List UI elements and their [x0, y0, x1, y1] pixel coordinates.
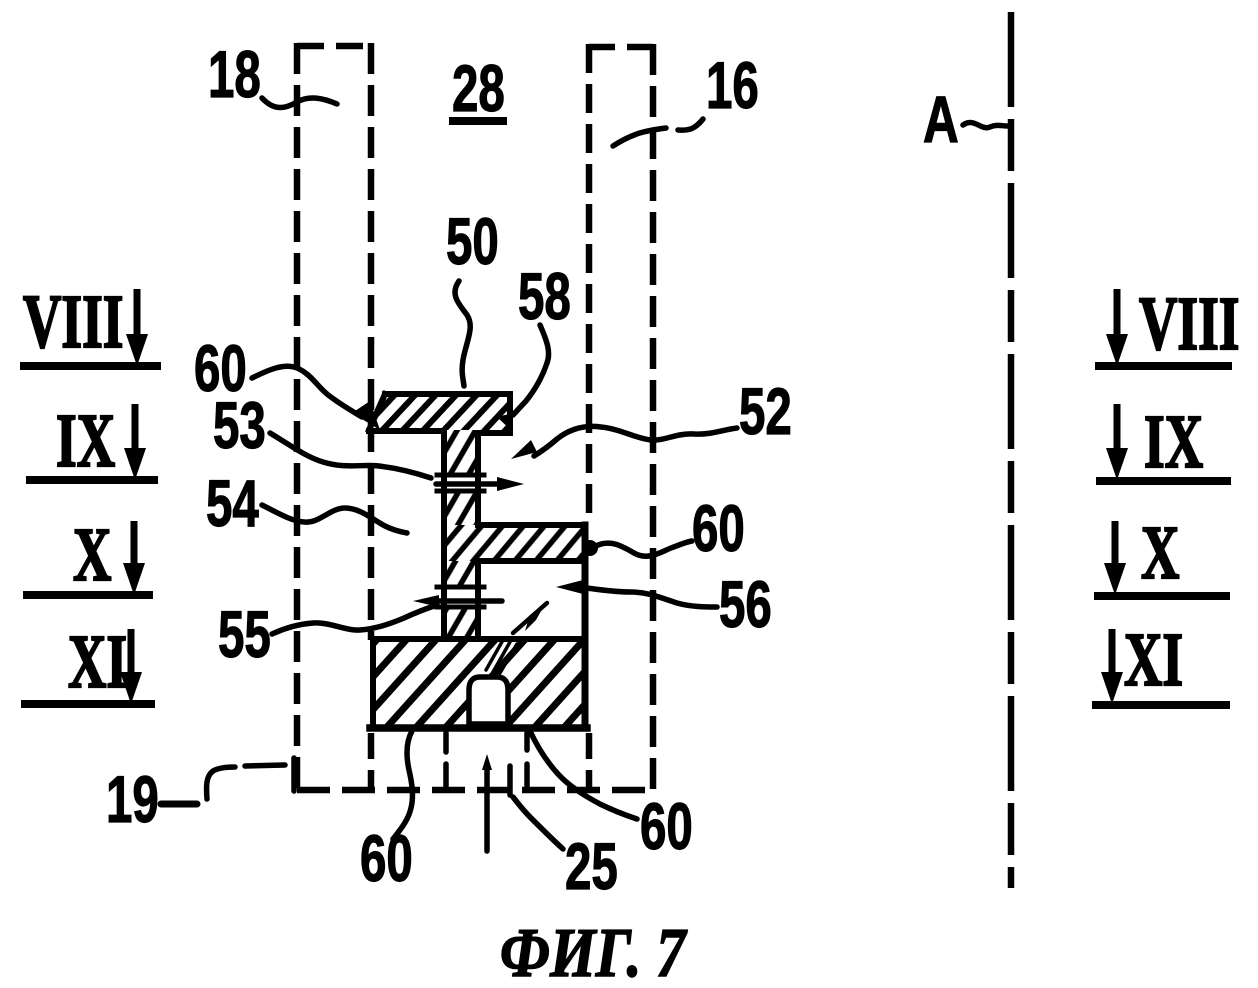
leader 60 middle-right: [596, 541, 692, 556]
wall 16 left dashed line below block: [586, 733, 593, 790]
middle flange bottom edge: [478, 558, 585, 564]
bottom block left edge: [370, 639, 376, 728]
svg-text:IX: IX: [56, 400, 115, 483]
hidden dash slot-right: [507, 766, 513, 795]
section arrow VIII right: [1114, 289, 1121, 340]
svg-text:A: A: [923, 83, 959, 157]
top flange bottom right edge: [477, 430, 510, 436]
section underline X right: [1094, 592, 1230, 600]
slot 25 white window: [469, 677, 508, 724]
leader 53 wavy: [270, 433, 431, 478]
pin 25 diagonal arrowhead swell: [525, 604, 545, 631]
leader 55 arrow line: [437, 598, 502, 604]
leader 19 bracket vertical: [291, 758, 297, 791]
svg-text:ФИГ. 7: ФИГ. 7: [500, 913, 688, 988]
svg-text:56: 56: [719, 568, 772, 641]
section arrow X right: [1112, 521, 1119, 568]
section underline XI right: [1092, 701, 1230, 709]
pin 25 diagonal arrow in cavity: [513, 603, 547, 633]
section arrow X left: [131, 521, 138, 568]
section underline X left: [23, 591, 153, 599]
section underline VIII right: [1095, 362, 1232, 370]
middle flange top edge: [478, 522, 585, 528]
leader 60 bottom-right: [530, 731, 637, 819]
label 28 underline: [449, 117, 507, 125]
slot axis arrowhead: [482, 754, 492, 770]
contact dot 60 middle: [582, 540, 598, 556]
wall 16 left dashed line: [586, 44, 593, 521]
bottom block top edge: [373, 636, 585, 642]
svg-text:VIII: VIII: [23, 281, 124, 364]
leader 60 top-left arrowhead: [352, 401, 380, 430]
svg-text:53: 53: [213, 389, 266, 462]
bottom block hatched body: [373, 639, 584, 728]
leader 60 bottom-left: [393, 731, 412, 839]
hidden dash web-left a: [443, 733, 449, 752]
section underline XI left: [21, 700, 155, 708]
leader A: [963, 122, 1007, 127]
web segment 1 hatched: [443, 430, 478, 475]
right wall edge: [582, 525, 589, 728]
leader 52 arrowhead: [511, 440, 537, 459]
section arrow XI right: [1109, 629, 1116, 677]
svg-text:IX: IX: [1144, 401, 1203, 484]
top flange hatched body: [369, 394, 510, 432]
thin joint 53 upper line: [437, 473, 484, 478]
leader 25: [513, 797, 563, 849]
leader 56 arrowhead: [556, 580, 583, 594]
bottom block bottom edge: [370, 724, 587, 732]
top flange right edge: [507, 394, 513, 432]
svg-text:55: 55: [218, 598, 271, 671]
section underline IX left: [26, 476, 158, 484]
top flange bottom left edge: [369, 428, 444, 434]
middle flange hatched body: [443, 525, 584, 561]
hidden dash right b: [524, 764, 530, 788]
pin 25 steep stroke c: [500, 644, 517, 673]
svg-text:54: 54: [206, 467, 259, 540]
thin joint 53 lower line: [437, 489, 484, 494]
top flange top edge: [385, 391, 510, 397]
leader 58 arrow blob: [497, 413, 513, 432]
axis A center line: [1008, 12, 1015, 888]
svg-text:60: 60: [640, 790, 693, 863]
web segment 4 hatched: [443, 607, 478, 639]
top flange left chamfer: [369, 394, 385, 430]
leader 53 arrow line: [436, 481, 501, 487]
svg-text:XI: XI: [1124, 619, 1183, 702]
thin joint 55 upper line: [437, 585, 484, 590]
leader 19 bracket curve: [207, 767, 235, 799]
svg-text:18: 18: [208, 38, 261, 111]
hidden dash web-left b: [443, 764, 449, 788]
leader 18: [262, 98, 337, 108]
web segment 2 hatched: [443, 491, 478, 525]
web right edge upper: [475, 433, 481, 525]
svg-text:25: 25: [565, 830, 618, 903]
svg-text:19: 19: [106, 763, 159, 836]
svg-text:16: 16: [706, 49, 759, 122]
section arrow IX right: [1114, 404, 1121, 453]
svg-text:X: X: [73, 514, 111, 597]
leader 16 second stroke: [613, 128, 666, 146]
svg-text:XI: XI: [68, 621, 127, 704]
wall 16 top dashed edge: [589, 44, 653, 51]
leader 54: [262, 505, 407, 533]
pin 25 steep stroke b: [493, 642, 510, 672]
slot axis arrow line: [484, 765, 490, 851]
wall 18 top dashed edge: [297, 43, 371, 50]
hidden dash right a: [524, 733, 530, 750]
wall 16 right dashed line: [650, 44, 657, 790]
wall 19 bottom dashed line: [297, 787, 653, 794]
leader 19 dash: [161, 801, 197, 808]
leader 56: [580, 587, 717, 607]
svg-text:60: 60: [692, 492, 745, 565]
svg-text:60: 60: [360, 822, 413, 895]
web right edge lower: [475, 561, 481, 639]
wall 18 right dashed line below block: [368, 733, 375, 790]
leader 16: [678, 119, 703, 130]
leader 19 bracket dash: [245, 765, 285, 766]
leader 52: [534, 426, 737, 456]
wall 18 left dashed line: [294, 43, 301, 790]
leader 58: [513, 325, 549, 415]
leader 50: [455, 281, 470, 386]
leader 55 wavy: [272, 605, 437, 634]
section underline VIII left: [20, 362, 161, 370]
thin joint 55 lower line: [437, 605, 484, 610]
leader 53 arrowhead: [497, 477, 524, 491]
leader 55 arrowhead: [413, 595, 439, 607]
pin 25 steep strokes in block: [486, 640, 503, 670]
svg-text:X: X: [1141, 512, 1179, 595]
section arrow IX left: [132, 404, 139, 453]
section underline IX right: [1096, 477, 1231, 485]
leader 60 top-left: [252, 366, 362, 417]
svg-text:28: 28: [452, 52, 505, 125]
web segment 3 hatched: [443, 561, 478, 587]
svg-text:VIII: VIII: [1139, 283, 1240, 366]
section arrow VIII left: [134, 289, 141, 340]
svg-text:50: 50: [446, 205, 499, 278]
svg-text:52: 52: [739, 375, 792, 448]
svg-text:58: 58: [518, 260, 571, 333]
web left edge: [441, 431, 447, 639]
cavity 56 white window: [481, 564, 581, 636]
wall 18 right dashed line: [368, 43, 375, 640]
section arrow XI left: [128, 629, 135, 677]
